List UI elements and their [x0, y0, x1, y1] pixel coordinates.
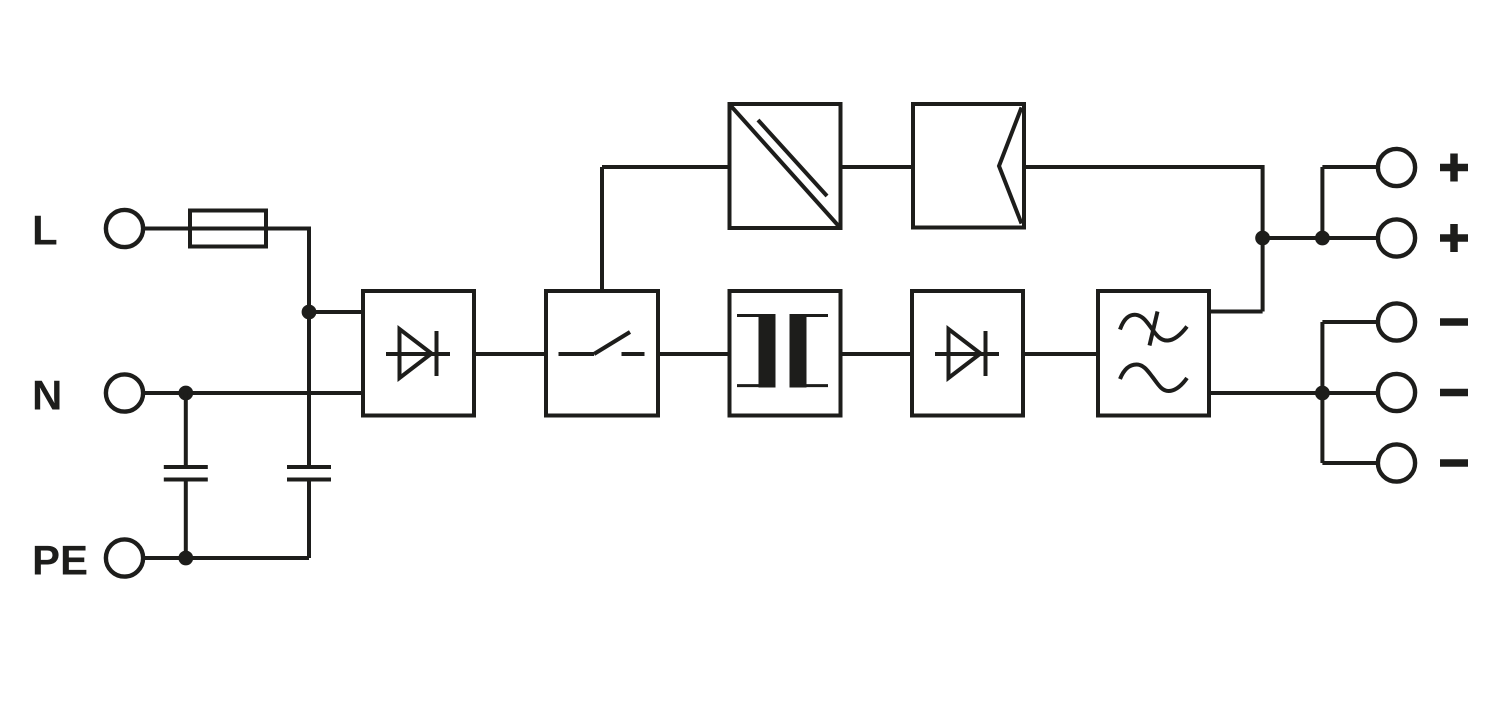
- junction N capacitor tap: [178, 386, 193, 401]
- diode symbol in U3: [935, 329, 999, 378]
- wire rectifier to filter: [1023, 352, 1098, 356]
- terminal -1: [1378, 303, 1415, 340]
- DC/DC converter box U5: [730, 104, 841, 228]
- terminal L: [106, 210, 143, 247]
- junction L feed to rectifier: [302, 305, 317, 320]
- diode symbol in U1: [386, 329, 450, 378]
- wire plus bus: [1263, 236, 1378, 240]
- wire filter top output: [1209, 310, 1263, 314]
- wire C1 to PE line: [184, 482, 188, 559]
- filter symbol crossed sine: [1120, 312, 1187, 346]
- junction plus branch: [1315, 231, 1330, 246]
- svg-text:N: N: [32, 372, 62, 419]
- plus sign 2: [1440, 224, 1468, 252]
- fuse F1: [190, 211, 266, 247]
- switch symbol in U2: [559, 332, 645, 354]
- terminal PE: [106, 539, 143, 576]
- input rectifier box U1: [363, 291, 474, 416]
- filter symbol sine: [1120, 365, 1187, 392]
- wire minus bus from filter: [1209, 391, 1378, 395]
- chevron symbol in U6: [999, 108, 1022, 224]
- terminal -3: [1378, 444, 1415, 481]
- junction PE tap: [178, 551, 193, 566]
- wire junction to rectifier input: [309, 310, 363, 314]
- filter box U4: [1098, 291, 1209, 416]
- wire plus branch to terminal: [1322, 165, 1378, 169]
- wire L terminal to fuse and corner: [143, 227, 310, 231]
- wire switch top to control: [600, 167, 604, 291]
- wire switch to transformer: [658, 352, 730, 356]
- wire minus branch bottom: [1322, 461, 1378, 465]
- terminal -2: [1378, 374, 1415, 411]
- wire rectifier to switch: [474, 352, 546, 356]
- terminal +2: [1378, 219, 1415, 256]
- wire control to DC/DC block: [602, 165, 730, 169]
- wire output stage to plus rail: [1024, 165, 1263, 169]
- wire plus branch up: [1320, 167, 1324, 238]
- capacitor C1: [164, 467, 208, 480]
- minus sign 1: [1440, 318, 1468, 326]
- minus sign 2: [1440, 389, 1468, 397]
- junction plus rail: [1255, 231, 1270, 246]
- terminal +1: [1378, 149, 1415, 186]
- junction minus branch: [1315, 386, 1330, 401]
- wire transformer to output rectifier: [841, 352, 913, 356]
- switching stage box U2: [546, 291, 658, 416]
- wire DC/DC to output stage: [841, 165, 914, 169]
- capacitor C2: [287, 467, 331, 480]
- transformer symbol: [737, 314, 828, 388]
- svg-text:L: L: [32, 207, 58, 254]
- output stage box U6: [913, 104, 1024, 228]
- wire L drop (upper segment): [307, 227, 311, 466]
- wire PE: [143, 556, 310, 560]
- wire plus rail drop: [1261, 165, 1265, 312]
- plus sign 1: [1440, 154, 1468, 182]
- output rectifier box U3: [912, 291, 1023, 416]
- wire minus branch top: [1322, 320, 1378, 324]
- wire minus branch vertical: [1320, 322, 1324, 463]
- terminal N: [106, 374, 143, 411]
- wire C2 to PE line: [307, 482, 311, 559]
- svg-text:PE: PE: [32, 537, 88, 584]
- minus sign 3: [1440, 459, 1468, 467]
- wire N to rectifier: [143, 391, 364, 395]
- transformer box T1: [730, 291, 841, 416]
- wire N tap to C1: [184, 393, 188, 465]
- DC/DC diagonal symbol: [731, 106, 840, 228]
